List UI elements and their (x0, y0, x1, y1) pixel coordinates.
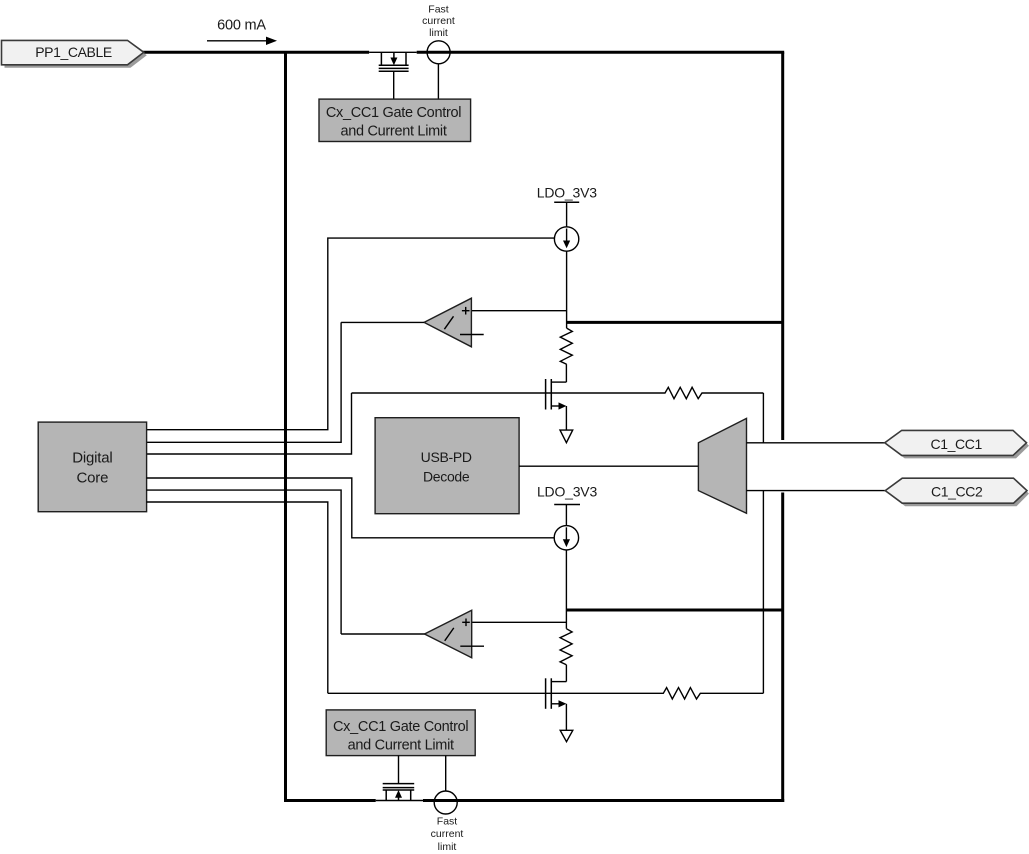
svg-text:LDO_3V3: LDO_3V3 (537, 184, 597, 200)
svg-text:limit: limit (438, 841, 457, 853)
svg-text:Core: Core (77, 470, 109, 487)
svg-text:current: current (422, 15, 455, 27)
svg-text:Cx_CC1 Gate Control: Cx_CC1 Gate Control (326, 105, 461, 121)
svg-text:Fast: Fast (437, 816, 458, 828)
svg-text:LDO_3V3: LDO_3V3 (537, 484, 597, 500)
svg-text:Decode: Decode (423, 468, 470, 484)
svg-text:and Current Limit: and Current Limit (340, 124, 446, 140)
svg-text:current: current (431, 828, 464, 840)
svg-text:Digital: Digital (72, 449, 112, 466)
svg-text:USB-PD: USB-PD (421, 449, 472, 465)
svg-text:600 mA: 600 mA (217, 17, 266, 33)
svg-text:limit: limit (429, 27, 448, 39)
svg-text:PP1_CABLE: PP1_CABLE (35, 44, 112, 60)
svg-text:and Current Limit: and Current Limit (348, 738, 454, 754)
svg-text:C1_CC1: C1_CC1 (931, 436, 983, 452)
svg-text:C1_CC2: C1_CC2 (931, 484, 983, 500)
svg-text:Cx_CC1 Gate Control: Cx_CC1 Gate Control (333, 719, 468, 735)
svg-text:Fast: Fast (428, 4, 449, 16)
